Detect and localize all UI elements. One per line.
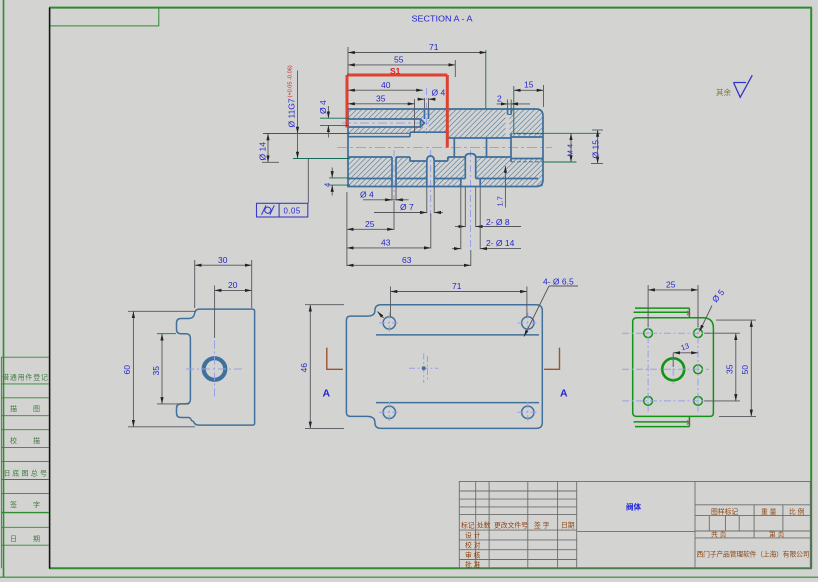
svg-text:35: 35 [376,93,386,103]
svg-text:S1: S1 [390,66,401,76]
svg-text:20: 20 [228,280,238,290]
svg-text:0.05: 0.05 [284,206,301,215]
svg-text:Ø 4: Ø 4 [360,189,374,199]
svg-text:签 字: 签 字 [534,521,550,530]
svg-text:日期: 日期 [561,522,575,530]
svg-text:第 页: 第 页 [769,530,785,539]
svg-text:4: 4 [323,183,332,187]
svg-text:Ø 4: Ø 4 [318,100,328,114]
svg-text:60: 60 [122,365,132,375]
svg-text:2: 2 [497,93,502,103]
svg-text:设 计: 设 计 [465,531,481,540]
svg-text:2- Ø 8: 2- Ø 8 [486,217,510,227]
svg-text:50: 50 [740,365,750,375]
svg-text:40: 40 [381,80,391,90]
svg-text:1.7: 1.7 [496,196,505,206]
svg-text:35: 35 [151,366,161,376]
svg-text:55: 55 [394,54,404,64]
svg-text:25: 25 [365,219,375,229]
svg-text:校 描: 校 描 [10,436,40,445]
svg-text:30: 30 [218,255,228,265]
svg-text:43: 43 [381,237,391,247]
svg-text:Ø 11G7: Ø 11G7 [287,98,297,127]
svg-text:描 图: 描 图 [10,404,40,413]
svg-text:更改文件号: 更改文件号 [494,521,528,530]
svg-text:处数: 处数 [477,521,491,530]
svg-text:4- Ø 6.5: 4- Ø 6.5 [543,277,574,287]
svg-text:审 核: 审 核 [465,550,481,559]
svg-text:SECTION A - A: SECTION A - A [412,15,474,24]
svg-text:其余: 其余 [716,87,731,97]
svg-text:(+0.05 -0.06): (+0.05 -0.06) [288,65,294,97]
svg-text:A: A [560,388,568,400]
svg-text:15: 15 [524,80,534,90]
svg-text:M 4: M 4 [566,144,575,157]
svg-text:25: 25 [666,279,676,289]
svg-text:批 准: 批 准 [465,560,481,569]
svg-text:标记: 标记 [461,521,475,530]
svg-text:A: A [323,388,331,400]
svg-text:35: 35 [725,364,735,374]
svg-text:比 例: 比 例 [789,507,805,516]
svg-text:图样标记: 图样标记 [711,507,738,516]
svg-text:共 页: 共 页 [711,530,727,539]
svg-text:阀体: 阀体 [626,502,641,512]
svg-text:校 对: 校 对 [465,541,481,550]
svg-text:签 字: 签 字 [10,500,40,509]
svg-text:2- Ø 14: 2- Ø 14 [486,238,515,248]
svg-text:71: 71 [452,281,462,291]
svg-text:Ø 14: Ø 14 [258,142,268,161]
svg-text:重 量: 重 量 [761,508,777,516]
svg-text:日 期: 日 期 [10,535,40,543]
svg-text:71: 71 [429,42,439,52]
svg-text:Ø 15: Ø 15 [591,140,601,159]
svg-text:Ø 4: Ø 4 [432,88,446,98]
svg-text:Ø 7: Ø 7 [400,202,414,212]
svg-text:46: 46 [299,363,309,373]
svg-text:旧底图总号: 旧底图总号 [3,469,47,478]
svg-text:借通用件登记: 借通用件登记 [2,373,48,382]
svg-text:63: 63 [402,255,412,265]
svg-text:西门子产品管理软件（上海）有限公司: 西门子产品管理软件（上海）有限公司 [697,550,810,559]
